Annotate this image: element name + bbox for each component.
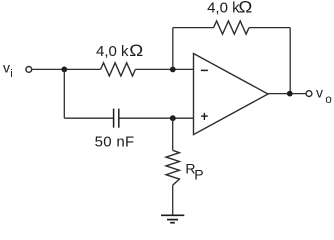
svg-text:i: i <box>10 68 12 80</box>
ground <box>161 215 184 222</box>
svg-text:P: P <box>194 166 203 182</box>
wire node D down to RP <box>172 118 174 150</box>
resistor R2 feedback 4,0 kΩ <box>214 21 249 34</box>
wire bottom branch <box>64 117 113 119</box>
svg-text:Ω: Ω <box>129 42 143 60</box>
wire node B up to feedback <box>172 28 174 70</box>
wire C1 to op-amp plus input <box>119 117 194 119</box>
wire R1 to op-amp minus input <box>135 68 193 70</box>
label vo <box>316 85 332 106</box>
resistor RP <box>166 150 179 185</box>
op-amp minus pin mark <box>201 69 208 71</box>
op-amp plus pin mark <box>201 113 208 120</box>
wire RP to ground <box>172 185 174 215</box>
svg-text:v: v <box>3 59 10 75</box>
node D <box>170 115 176 121</box>
wire feedback top left <box>173 27 214 29</box>
node A <box>61 67 67 73</box>
wire input to R1 <box>32 68 101 70</box>
wire node A down <box>63 69 65 118</box>
label RP <box>185 161 203 183</box>
node C <box>287 91 293 97</box>
capacitor C1 50 nF <box>114 109 119 128</box>
wire op-amp output <box>268 93 306 95</box>
wire feedback top right <box>249 27 290 29</box>
svg-text:50 nF: 50 nF <box>95 133 135 150</box>
label vi <box>3 59 13 79</box>
wire feedback down to output <box>289 28 291 94</box>
resistor R1 4,0 kΩ <box>101 63 136 76</box>
node B <box>170 67 176 73</box>
svg-text:4,0 k: 4,0 k <box>207 0 240 17</box>
terminal vi <box>26 67 32 73</box>
svg-text:Ω: Ω <box>238 0 252 17</box>
op-amp U1 <box>194 54 269 135</box>
svg-text:4,0 k: 4,0 k <box>96 43 129 60</box>
svg-text:v: v <box>316 85 323 101</box>
svg-text:o: o <box>325 94 331 106</box>
terminal vo <box>306 91 312 97</box>
